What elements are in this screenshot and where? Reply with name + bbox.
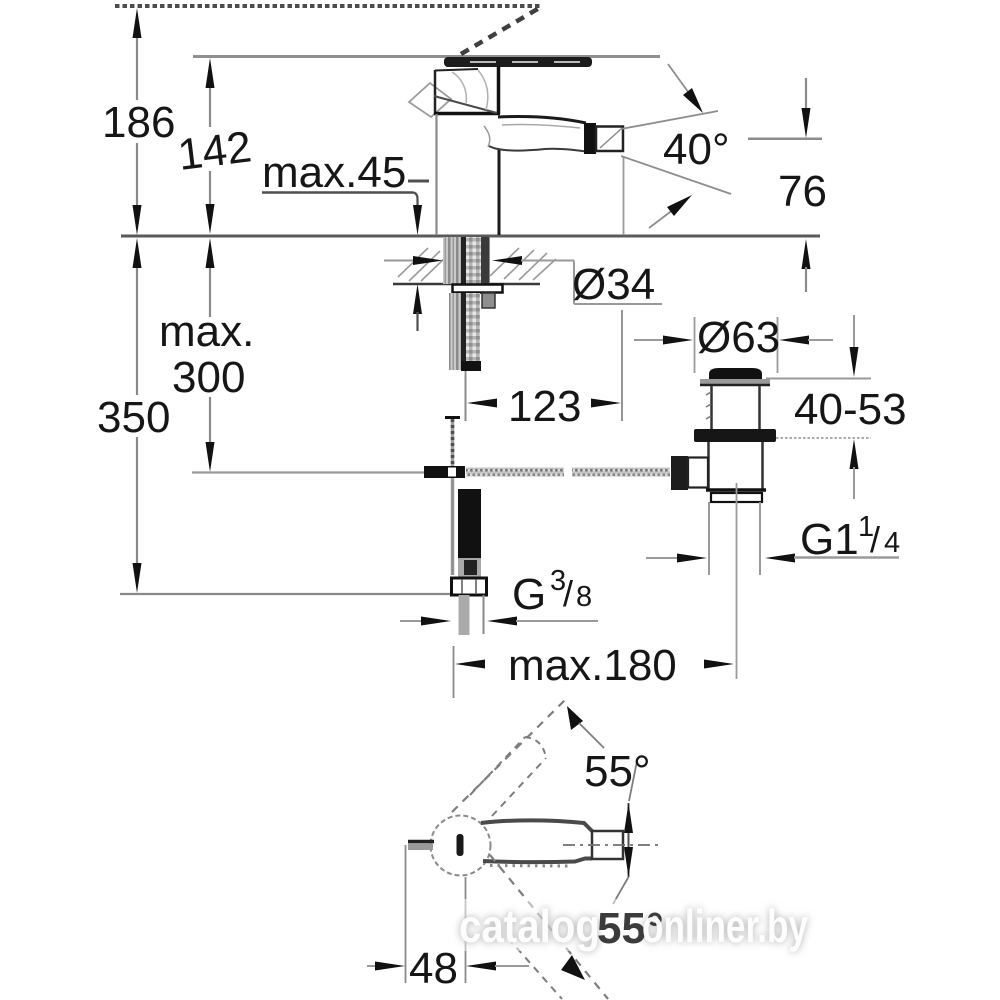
- dimension 186: [102, 8, 175, 235]
- top view: swing chord dimension: [624, 803, 633, 877]
- countertop bottom line: [393, 283, 540, 286]
- faucet handle lever: [444, 57, 592, 67]
- dimension Ø63: [634, 313, 833, 373]
- svg-text:max.: max.: [159, 307, 254, 356]
- dimension max.45: [262, 148, 429, 331]
- dimension 142: [175, 58, 254, 234]
- drain body: [709, 442, 763, 489]
- dimension 350: [97, 238, 170, 593]
- max.300 reference line (pop-up tee level): [192, 471, 424, 473]
- svg-text:Ø34: Ø34: [572, 260, 655, 309]
- svg-text:Ø63: Ø63: [697, 313, 780, 362]
- svg-text:40-53: 40-53: [794, 385, 907, 434]
- top view: rotated handle ghost (dashed): [452, 699, 566, 816]
- svg-text:48: 48: [409, 944, 458, 993]
- faucet handle body: [434, 66, 500, 114]
- svg-text:G1: G1: [800, 515, 859, 564]
- rod connector on drain: [671, 456, 708, 490]
- drain outlet coupling: [706, 490, 766, 502]
- svg-text:onliner.by: onliner.by: [642, 900, 808, 952]
- top view: knob center tick: [457, 834, 464, 856]
- dimension 76: [748, 78, 827, 292]
- reference line 142 level: [193, 55, 660, 58]
- countertop section hatching: [398, 248, 556, 281]
- faucet handle tail (projection): [409, 83, 451, 117]
- svg-text:max.45: max.45: [262, 148, 406, 197]
- label G1 1/4: [646, 511, 900, 564]
- 40° lower leader arrow: [649, 195, 692, 228]
- max handle height dashed line: [115, 4, 540, 8]
- faucet spout: [484, 117, 593, 153]
- svg-text:catalog: catalog: [459, 900, 600, 952]
- pop-up waste flange plate: [700, 379, 770, 385]
- pop-up rod tee joint: [424, 466, 465, 478]
- 350 reference line (supply connection level): [120, 593, 452, 595]
- svg-text:76: 76: [778, 167, 827, 216]
- svg-text:8: 8: [576, 581, 592, 613]
- 40° upper leader arrow: [668, 64, 703, 113]
- top view: lever body: [481, 820, 593, 866]
- watermark catalog.onliner.by: [428, 899, 860, 953]
- 40° spout swivel lower ray: [621, 156, 731, 194]
- svg-text:40°: 40°: [663, 125, 730, 174]
- pop-up rod guide block: [482, 293, 495, 308]
- label 55° lower (behind watermark): [613, 877, 629, 904]
- drain locknut: [694, 429, 776, 442]
- horizontal pop-up rod segment 1: [466, 468, 564, 477]
- top view: lever end cap: [592, 831, 623, 859]
- svg-text:/: /: [563, 573, 573, 614]
- mounting shank below washer: [449, 293, 481, 371]
- svg-text:123: 123: [508, 382, 581, 431]
- svg-text:350: 350: [97, 393, 170, 442]
- top view: lever centerline dashes: [563, 844, 658, 846]
- svg-text:/: /: [870, 519, 880, 560]
- faucet aerator: [584, 123, 623, 154]
- svg-text:186: 186: [102, 98, 175, 147]
- dimension 123: [466, 310, 623, 431]
- dimension 40-53: [766, 315, 907, 499]
- mounting washer: [453, 285, 503, 293]
- faucet handle lever raised (dashed): [461, 7, 541, 54]
- pop-up vertical rod: [445, 418, 460, 576]
- svg-text:max.180: max.180: [508, 641, 677, 690]
- top view: lower swing dashed line: [490, 855, 608, 999]
- drain tailpipe: [709, 502, 760, 575]
- aerator extension line to countertop: [623, 157, 625, 235]
- dimension max.180: [454, 641, 735, 698]
- svg-text:55°: 55°: [584, 747, 651, 796]
- drain centerline: [736, 483, 738, 679]
- top view: supply stub left: [408, 842, 434, 851]
- svg-text:300: 300: [172, 353, 245, 402]
- countertop line: [121, 235, 820, 238]
- drain neck: [706, 386, 760, 429]
- top view: 55° upper leader arrow: [567, 706, 637, 801]
- label 40°: [663, 125, 822, 174]
- dimension max.300: [159, 238, 254, 472]
- horizontal pop-up rod segment 2: [572, 468, 670, 477]
- G3/8 connection nut: [452, 578, 487, 595]
- dimension 48: [367, 845, 529, 993]
- faucet body column: [437, 114, 500, 235]
- dimension Ø34: [384, 256, 662, 309]
- shank centerline: [465, 371, 467, 421]
- 40° spout swivel upper ray: [621, 111, 718, 129]
- supply hose (dark): [458, 489, 481, 580]
- pop-up waste flange cap: [709, 368, 762, 380]
- svg-text:G: G: [512, 570, 546, 619]
- svg-text:142: 142: [175, 122, 254, 180]
- mounting shank above washer: [443, 237, 490, 284]
- svg-text:4: 4: [884, 527, 900, 559]
- supply pipe below nut: [459, 595, 484, 635]
- dimension G 3/8: [400, 565, 598, 626]
- top view: handle knob circle: [431, 816, 491, 876]
